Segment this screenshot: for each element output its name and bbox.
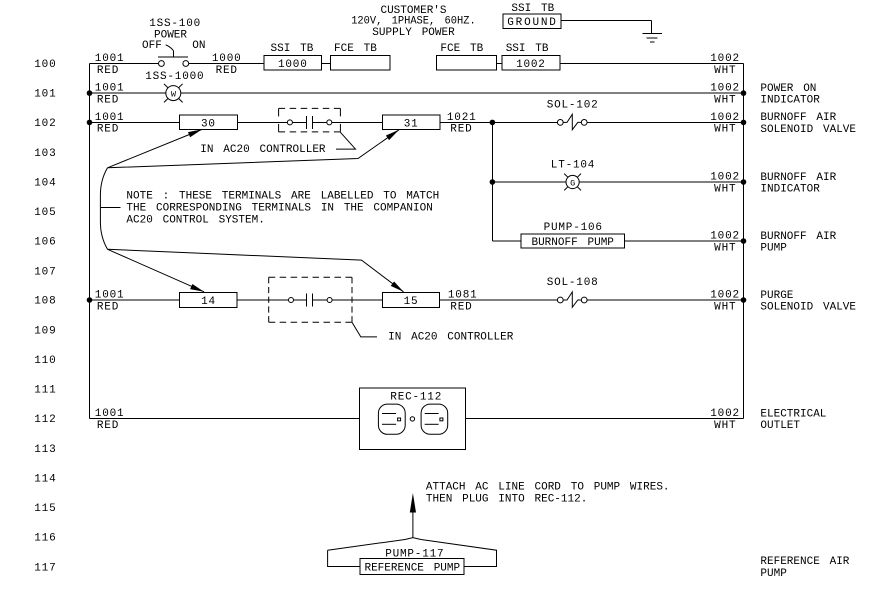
svg-text:INDICATOR: INDICATOR bbox=[760, 184, 820, 196]
rung 104 wire segments bbox=[492, 181, 743, 183]
svg-text:1002: 1002 bbox=[710, 408, 740, 420]
ground symbol bbox=[642, 34, 661, 42]
svg-text:1002: 1002 bbox=[710, 172, 740, 184]
svg-text:1001: 1001 bbox=[95, 112, 125, 124]
svg-text:1002: 1002 bbox=[710, 231, 740, 243]
svg-text:FCE TB: FCE TB bbox=[334, 43, 377, 55]
svg-text:109: 109 bbox=[34, 326, 56, 338]
leader line to terminal 14 bbox=[108, 249, 205, 291]
left rail bbox=[89, 64, 91, 419]
node dot right rail rung 101 bbox=[741, 90, 747, 96]
svg-text:SOLENOID VALVE: SOLENOID VALVE bbox=[760, 124, 856, 136]
svg-text:117: 117 bbox=[34, 562, 56, 574]
svg-text:FCE TB: FCE TB bbox=[440, 43, 483, 55]
rung line numbers 100-117 bbox=[34, 59, 56, 574]
leader line to terminal 15 bbox=[108, 249, 404, 291]
contact in AC20 controller rung 102 bbox=[287, 120, 331, 125]
svg-text:WHT: WHT bbox=[714, 94, 736, 106]
svg-text:1001: 1001 bbox=[95, 290, 125, 302]
node dot right rail rung 106 bbox=[741, 238, 747, 244]
terminal box FCE TB right bbox=[437, 55, 497, 70]
ground terminal box GROUND bbox=[503, 14, 561, 29]
rung 108 wire segments bbox=[90, 299, 744, 301]
svg-text:14: 14 bbox=[201, 296, 216, 308]
svg-text:15: 15 bbox=[404, 296, 419, 308]
svg-text:110: 110 bbox=[34, 355, 56, 367]
leader line to terminal 31 bbox=[108, 130, 400, 168]
svg-text:W: W bbox=[171, 90, 177, 100]
svg-text:REFERENCE AIR: REFERENCE AIR bbox=[760, 556, 849, 568]
svg-text:113: 113 bbox=[34, 444, 56, 456]
svg-text:105: 105 bbox=[34, 207, 56, 219]
svg-text:THEN PLUG INTO REC-112.: THEN PLUG INTO REC-112. bbox=[426, 493, 587, 505]
receptacle REC-112 box bbox=[360, 388, 466, 450]
svg-text:RED: RED bbox=[97, 65, 119, 77]
svg-text:NOTE : THESE TERMINALS ARE LAB: NOTE : THESE TERMINALS ARE LABELLED TO M… bbox=[126, 191, 439, 203]
svg-text:SSI TB: SSI TB bbox=[506, 43, 549, 55]
arrowhead at terminal 30 bbox=[188, 129, 202, 137]
svg-text:IN AC20 CONTROLLER: IN AC20 CONTROLLER bbox=[200, 144, 326, 156]
svg-text:REFERENCE PUMP: REFERENCE PUMP bbox=[364, 562, 460, 574]
svg-text:1002: 1002 bbox=[710, 112, 740, 124]
svg-text:REC-112: REC-112 bbox=[390, 392, 442, 404]
node dot left rail rung 101 bbox=[87, 90, 93, 96]
node dot left rail rung 102 bbox=[87, 120, 93, 126]
svg-text:1002: 1002 bbox=[710, 83, 740, 95]
svg-text:GROUND: GROUND bbox=[507, 17, 557, 29]
terminal box 31 bbox=[382, 115, 440, 129]
svg-text:WHT: WHT bbox=[714, 301, 736, 313]
svg-text:115: 115 bbox=[34, 503, 56, 515]
svg-text:1000: 1000 bbox=[278, 59, 308, 71]
pump PUMP-117 outline bbox=[328, 538, 497, 567]
svg-text:31: 31 bbox=[404, 118, 419, 130]
svg-text:INDICATOR: INDICATOR bbox=[760, 95, 820, 107]
svg-text:100: 100 bbox=[34, 59, 56, 71]
svg-text:112: 112 bbox=[34, 414, 56, 426]
switch 1SS-100 contacts bbox=[159, 61, 189, 67]
node dot left rail rung 108 bbox=[87, 297, 93, 303]
contact in AC20 controller rung 108 bbox=[289, 298, 333, 303]
svg-text:PUMP: PUMP bbox=[760, 568, 787, 580]
terminal box 30 bbox=[180, 115, 238, 129]
svg-text:POWER ON: POWER ON bbox=[760, 83, 816, 95]
svg-text:G: G bbox=[570, 178, 575, 188]
terminal box FCE TB left bbox=[330, 55, 390, 70]
pump box REFERENCE PUMP bbox=[360, 558, 464, 574]
svg-text:ATTACH AC LINE CORD TO PUMP WI: ATTACH AC LINE CORD TO PUMP WIRES. bbox=[426, 482, 670, 494]
svg-text:SUPPLY POWER: SUPPLY POWER bbox=[372, 27, 455, 39]
svg-text:SSI TB: SSI TB bbox=[271, 43, 314, 55]
terminal box 1002 bbox=[502, 55, 560, 70]
dashed enclosure AC20 controller rung 108 bbox=[269, 277, 352, 322]
svg-text:108: 108 bbox=[34, 296, 56, 308]
solenoid SOL-108 bbox=[557, 292, 587, 307]
node dot branch rung 104 bbox=[490, 179, 496, 185]
svg-text:1001: 1001 bbox=[95, 53, 125, 65]
rung 102 wire segments bbox=[90, 121, 744, 123]
svg-text:RED: RED bbox=[97, 94, 119, 106]
node dot right rail rung 102 bbox=[741, 120, 747, 126]
svg-text:RED: RED bbox=[97, 124, 119, 136]
dashed enclosure AC20 controller rung 102 bbox=[279, 108, 341, 131]
svg-text:WHT: WHT bbox=[714, 124, 736, 136]
rung 112 wire segments bbox=[90, 418, 744, 420]
svg-text:PURGE: PURGE bbox=[760, 290, 793, 302]
rung 100 wire segments bbox=[90, 63, 744, 65]
svg-text:101: 101 bbox=[34, 89, 56, 101]
pump box BURNOFF PUMP bbox=[521, 234, 624, 248]
svg-text:103: 103 bbox=[34, 148, 56, 160]
branch bus from node 1021 down to rung 106 bbox=[491, 122, 493, 241]
svg-text:BURNOFF AIR: BURNOFF AIR bbox=[760, 112, 836, 124]
svg-text:BURNOFF PUMP: BURNOFF PUMP bbox=[531, 237, 614, 249]
svg-text:LT-104: LT-104 bbox=[551, 160, 595, 172]
svg-text:WHT: WHT bbox=[714, 65, 736, 77]
node dot 1021 branch rung 102 bbox=[490, 120, 496, 126]
terminal box 1000 bbox=[264, 55, 322, 70]
svg-text:AC20 CONTROL SYSTEM.: AC20 CONTROL SYSTEM. bbox=[126, 215, 264, 227]
svg-text:107: 107 bbox=[34, 266, 56, 278]
note leader bracket bbox=[100, 168, 120, 250]
svg-text:111: 111 bbox=[34, 385, 56, 397]
svg-text:THE CORRESPONDING TERMINALS IN: THE CORRESPONDING TERMINALS IN THE COMPA… bbox=[126, 203, 432, 215]
svg-text:RED: RED bbox=[450, 124, 472, 136]
svg-text:1001: 1001 bbox=[95, 408, 125, 420]
svg-text:114: 114 bbox=[34, 474, 56, 486]
svg-text:30: 30 bbox=[201, 118, 216, 130]
svg-text:RED: RED bbox=[216, 65, 238, 77]
arrowhead at terminal 15 bbox=[391, 282, 404, 292]
arrow from pump to note bbox=[410, 493, 416, 513]
svg-text:BURNOFF AIR: BURNOFF AIR bbox=[760, 231, 836, 243]
node dot right rail rung 108 bbox=[741, 297, 747, 303]
svg-text:PUMP-106: PUMP-106 bbox=[544, 222, 603, 234]
solenoid SOL-102 bbox=[557, 114, 587, 129]
switch 1SS-100 actuator bbox=[158, 50, 188, 57]
svg-text:1021: 1021 bbox=[447, 112, 477, 124]
receptacle center screw bbox=[410, 417, 414, 421]
svg-text:SOL-108: SOL-108 bbox=[547, 277, 599, 289]
leader line to terminal 30 bbox=[108, 129, 203, 167]
arrowhead at terminal 31 bbox=[386, 130, 399, 140]
svg-text:1002: 1002 bbox=[516, 59, 546, 71]
rung 106 wire segments bbox=[492, 240, 743, 242]
svg-text:BURNOFF AIR: BURNOFF AIR bbox=[760, 172, 836, 184]
svg-text:SOL-102: SOL-102 bbox=[547, 99, 599, 111]
svg-text:RED: RED bbox=[97, 301, 119, 313]
leader to IN AC20 CONTROLLER rung 108 bbox=[352, 322, 377, 337]
svg-text:1002: 1002 bbox=[710, 53, 740, 65]
svg-text:104: 104 bbox=[34, 178, 56, 190]
svg-text:WHT: WHT bbox=[714, 242, 736, 254]
svg-text:ON: ON bbox=[192, 40, 205, 52]
receptacle left socket bbox=[378, 404, 405, 434]
svg-text:1000: 1000 bbox=[212, 53, 242, 65]
terminal box 15 bbox=[382, 293, 439, 308]
svg-text:WHT: WHT bbox=[714, 420, 736, 432]
lamp LT-104 bbox=[564, 174, 581, 191]
svg-text:WHT: WHT bbox=[714, 183, 736, 195]
svg-text:OUTLET: OUTLET bbox=[760, 420, 800, 432]
svg-text:102: 102 bbox=[34, 118, 56, 130]
svg-text:1002: 1002 bbox=[710, 290, 740, 302]
svg-text:PUMP: PUMP bbox=[760, 243, 787, 255]
node dot right rail rung 104 bbox=[741, 179, 747, 185]
arrowhead at terminal 14 bbox=[190, 284, 204, 292]
right rail bbox=[743, 64, 745, 419]
svg-text:116: 116 bbox=[34, 533, 56, 545]
lamp 1SS-1000 bbox=[164, 84, 183, 103]
wire ground box to ground symbol bbox=[561, 20, 651, 33]
leader to IN AC20 CONTROLLER rung 102 bbox=[336, 132, 356, 149]
svg-text:1081: 1081 bbox=[448, 290, 478, 302]
svg-text:ELECTRICAL: ELECTRICAL bbox=[760, 408, 826, 420]
svg-text:IN AC20 CONTROLLER: IN AC20 CONTROLLER bbox=[388, 332, 514, 344]
svg-text:106: 106 bbox=[34, 237, 56, 249]
svg-text:RED: RED bbox=[97, 420, 119, 432]
rung 101 wire segments bbox=[90, 92, 744, 94]
svg-text:1SS-1000: 1SS-1000 bbox=[145, 71, 204, 83]
svg-text:1SS-100: 1SS-100 bbox=[149, 18, 201, 30]
svg-text:SOLENOID VALVE: SOLENOID VALVE bbox=[760, 302, 856, 314]
svg-text:1001: 1001 bbox=[95, 83, 125, 95]
terminal box 14 bbox=[180, 293, 238, 308]
svg-text:RED: RED bbox=[450, 301, 472, 313]
svg-text:OFF: OFF bbox=[142, 40, 162, 52]
svg-text:120V, 1PHASE, 60HZ.: 120V, 1PHASE, 60HZ. bbox=[351, 16, 476, 28]
receptacle right socket bbox=[421, 404, 448, 434]
